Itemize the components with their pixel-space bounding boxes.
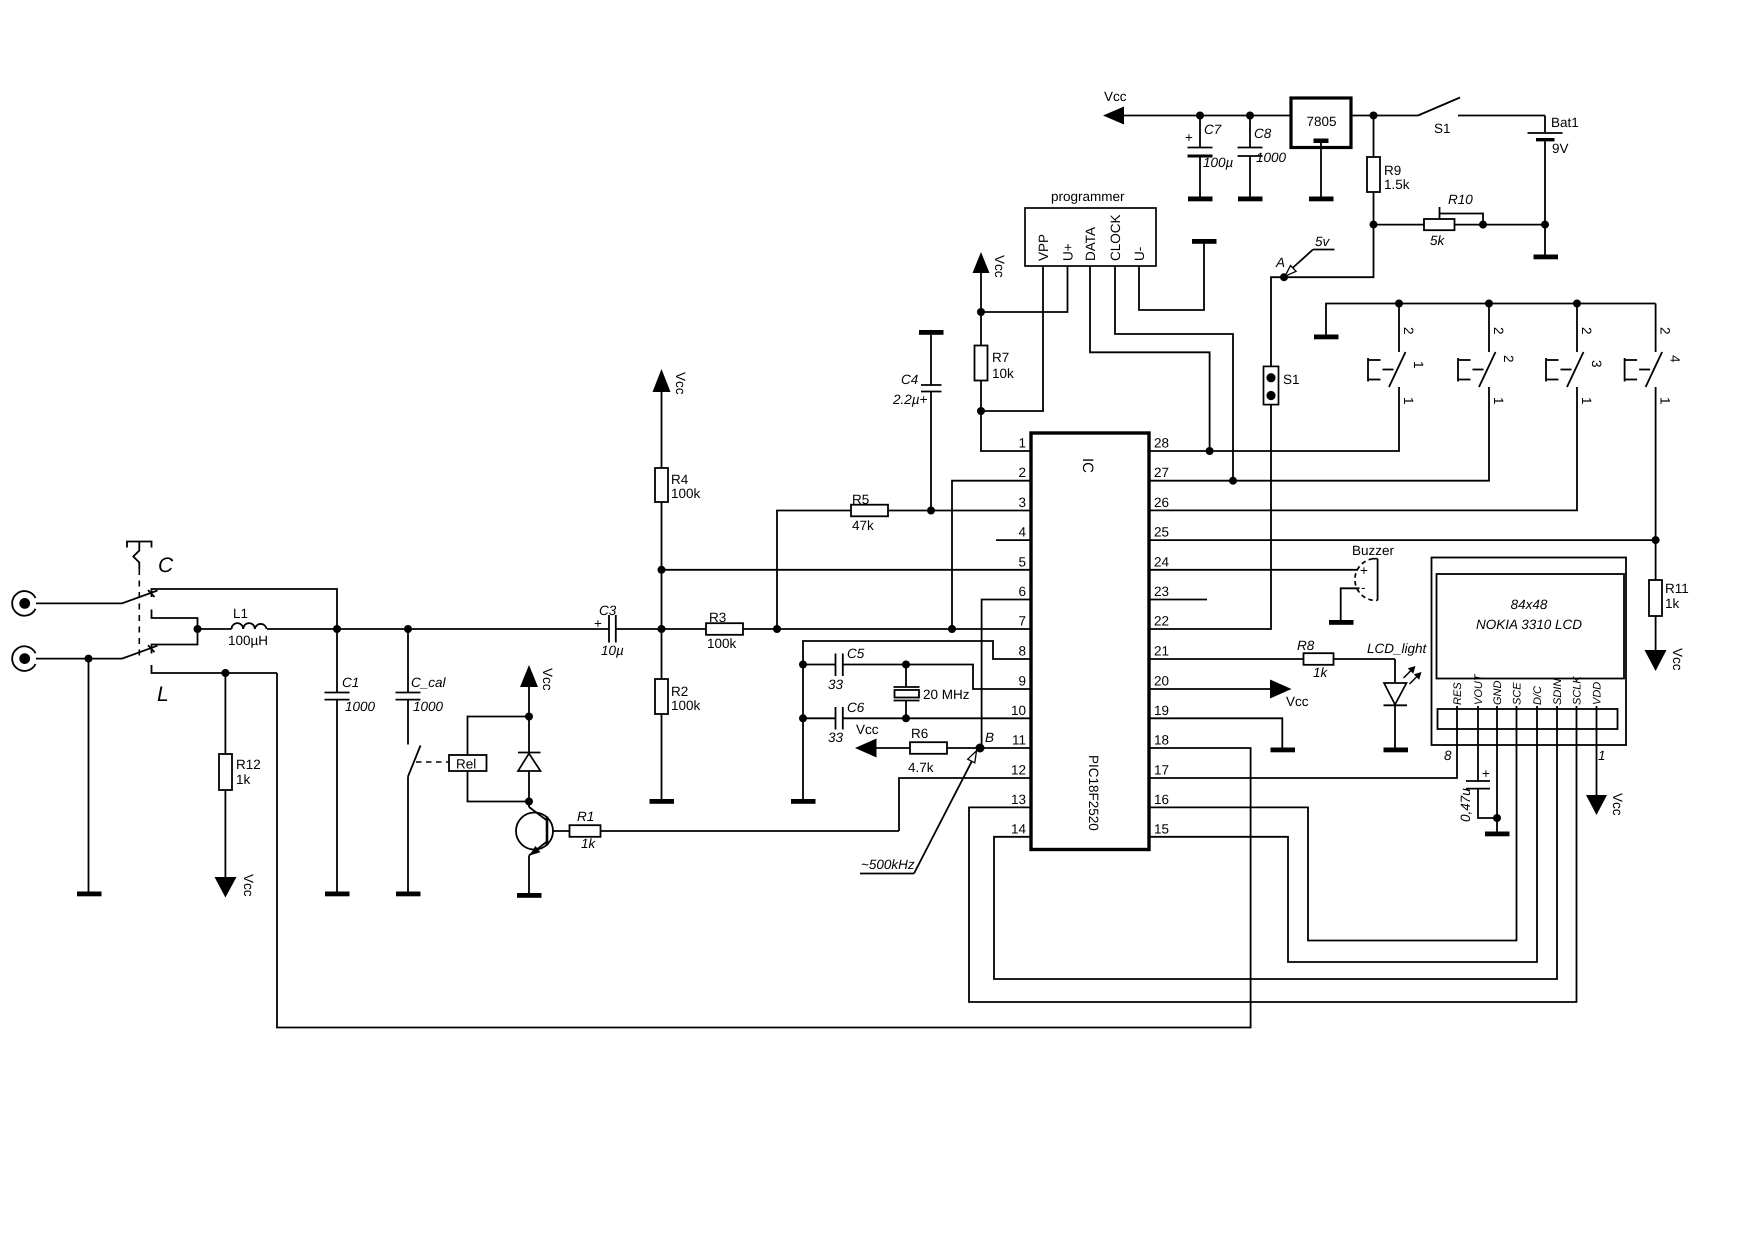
svg-text:10: 10 — [1011, 703, 1026, 718]
svg-text:VOUT: VOUT — [1473, 673, 1485, 705]
svg-text:L: L — [157, 683, 169, 706]
svg-text:13: 13 — [1011, 792, 1026, 807]
svg-text:2: 2 — [1501, 355, 1516, 363]
svg-text:1k: 1k — [236, 772, 251, 787]
svg-text:5: 5 — [1018, 554, 1026, 569]
svg-text:12: 12 — [1011, 763, 1026, 778]
pushbutton 1 — [1149, 304, 1426, 452]
node junction C_cal/main wire — [404, 625, 412, 633]
svg-text:5v: 5v — [1315, 234, 1331, 249]
svg-text:24: 24 — [1154, 554, 1170, 569]
svg-text:R6: R6 — [911, 726, 928, 741]
svg-text:33: 33 — [828, 730, 844, 745]
ground under battery — [1534, 225, 1559, 260]
svg-text:S1: S1 — [1434, 121, 1451, 136]
wire pin 21 to R8 — [1149, 658, 1304, 660]
svg-text:18: 18 — [1154, 733, 1169, 748]
ground under C_cal — [396, 892, 421, 897]
svg-text:11: 11 — [1012, 733, 1026, 748]
ground under LED — [1384, 748, 1409, 753]
svg-text:+: + — [1185, 130, 1193, 145]
svg-text:C1: C1 — [342, 675, 359, 690]
ground under LCD GND — [1485, 818, 1510, 836]
svg-text:5k: 5k — [1430, 233, 1446, 248]
node junction R10 wiper — [1479, 221, 1487, 229]
node junction C6 left — [799, 714, 807, 722]
wire pin 10 to crystal bottom — [906, 717, 1031, 719]
capacitor C7 100µ — [1185, 116, 1234, 197]
svg-text:Vcc: Vcc — [1610, 793, 1625, 816]
ground under R2 — [650, 799, 675, 804]
switch lever C_cal (relay contact) — [408, 746, 421, 777]
inductor L1 100µH — [198, 606, 269, 648]
svg-text:27: 27 — [1154, 465, 1169, 480]
svg-text:C6: C6 — [847, 700, 865, 715]
svg-text:1.5k: 1.5k — [1384, 177, 1410, 192]
connector programmer — [1025, 189, 1156, 266]
potentiometer R10 5k — [1374, 192, 1546, 248]
wire C terminal to C1 node — [152, 589, 338, 629]
svg-text:C4: C4 — [901, 372, 918, 387]
resistor R7 10k — [975, 312, 1015, 411]
resistor R4 100k — [655, 468, 701, 629]
capacitor 0,47u — [1458, 766, 1497, 822]
svg-text:Vcc: Vcc — [992, 255, 1007, 278]
svg-text:R5: R5 — [852, 492, 869, 507]
IC U1 PIC18F2520 body — [1031, 433, 1149, 850]
svg-text:RES: RES — [1452, 682, 1464, 705]
svg-text:C8: C8 — [1254, 126, 1272, 141]
resistor R2 100k — [655, 629, 701, 799]
node junction jack bottom/ground — [85, 655, 93, 663]
wire pin 12 to R1 — [899, 778, 1031, 831]
node A — [1275, 255, 1288, 281]
node junction CLOCK/pin27 — [1229, 477, 1237, 485]
wire buttons common rail — [1326, 304, 1656, 335]
svg-text:1000: 1000 — [413, 699, 444, 714]
wire pin 9 to crystal top — [906, 665, 1031, 690]
svg-text:A: A — [1275, 255, 1285, 270]
svg-text:9: 9 — [1018, 674, 1026, 689]
svg-text:2.2µ+: 2.2µ+ — [892, 392, 928, 407]
svg-text:C7: C7 — [1204, 122, 1222, 137]
capacitor C_cal 1000 — [396, 629, 447, 745]
wire U+ to R7 top node — [981, 266, 1068, 312]
transistor Q1 — [516, 802, 553, 894]
svg-text:B: B — [985, 730, 994, 745]
svg-text:Vcc: Vcc — [540, 668, 555, 691]
wire switch to battery — [1458, 115, 1545, 117]
svg-text:S1: S1 — [1283, 372, 1300, 387]
pin SCE — [1512, 682, 1524, 729]
capacitor C5 33 — [803, 646, 906, 692]
ground under C1 — [325, 892, 350, 897]
svg-text:U+: U+ — [1061, 243, 1076, 261]
svg-text:9V: 9V — [1552, 141, 1569, 156]
power symbol Vcc at pin 20 — [1270, 680, 1309, 710]
switch lever C — [122, 590, 158, 603]
LCD pin strip — [1438, 709, 1618, 729]
node B — [976, 730, 995, 753]
svg-text:LCD_light: LCD_light — [1367, 641, 1428, 656]
wire pin 6 down to node B — [982, 600, 1031, 749]
dashed mechanical link of input switch — [138, 569, 140, 656]
relay coil Rel — [449, 717, 529, 802]
svg-text:1: 1 — [1401, 397, 1416, 405]
svg-text:100k: 100k — [707, 636, 737, 651]
svg-text:20 MHz: 20 MHz — [923, 687, 970, 702]
connector jack icon (probe socket) — [127, 542, 152, 570]
svg-text:R3: R3 — [709, 610, 726, 625]
svg-text:1k: 1k — [581, 836, 597, 851]
node junction C5/crystal — [902, 661, 910, 669]
svg-text:100µH: 100µH — [228, 633, 268, 648]
wire C_cal switch to ground — [407, 777, 409, 892]
svg-text:+: + — [594, 616, 602, 631]
svg-text:47k: 47k — [852, 518, 874, 533]
LCD module NOKIA 3310 outer box — [1432, 558, 1627, 746]
svg-text:25: 25 — [1154, 525, 1169, 540]
pin SDIN — [1552, 679, 1564, 729]
wire R7 node to IC pin 1 — [981, 411, 1031, 451]
svg-text:+: + — [1482, 766, 1490, 781]
svg-text:IC: IC — [1079, 458, 1096, 473]
wire pin 2 to main node — [952, 481, 1031, 629]
ground at pin 19 — [1271, 748, 1296, 753]
svg-text:3: 3 — [1018, 495, 1026, 510]
node junction C1/main wire — [333, 625, 341, 633]
wire R5 node to IC pin 3 — [931, 510, 1031, 512]
power symbol Vcc at R6 (left arrow) — [855, 722, 910, 758]
diode D1 (flyback) — [518, 717, 541, 802]
wire Vcc rail to 7805 — [1123, 115, 1291, 117]
resistor R6 4.7k — [908, 726, 947, 775]
svg-text:PIC18F2520: PIC18F2520 — [1086, 755, 1101, 831]
svg-text:Vcc: Vcc — [856, 722, 879, 737]
wire pin 13 to LCD SCLK — [969, 729, 1577, 1002]
svg-text:19: 19 — [1154, 703, 1169, 718]
node junction C7/rail — [1196, 112, 1204, 120]
node junction battery/R10 — [1541, 221, 1549, 229]
svg-text:2: 2 — [1491, 327, 1506, 335]
svg-text:1k: 1k — [1313, 665, 1329, 680]
svg-text:R1: R1 — [577, 809, 594, 824]
wire pin 18 to L terminal (long bottom run) — [277, 673, 1251, 1028]
wire pin 20 to Vcc — [1149, 688, 1272, 690]
svg-text:Vcc: Vcc — [1286, 694, 1309, 709]
connector input jack bottom — [12, 646, 35, 671]
svg-text:Rel: Rel — [456, 757, 476, 772]
pin 23 stub — [1149, 599, 1207, 601]
resistor R1 1k — [553, 809, 899, 851]
power symbol Vcc above R4 — [653, 369, 689, 468]
svg-text:2: 2 — [1579, 327, 1594, 335]
node junction C8/rail — [1246, 112, 1254, 120]
pushbutton 2 — [1149, 304, 1516, 481]
pin D/C — [1532, 686, 1544, 729]
wire jack top to switch lever — [36, 602, 122, 604]
svg-text:7805: 7805 — [1307, 114, 1337, 129]
ground under transistor — [517, 893, 542, 898]
wire node A to jumper S1 — [1271, 277, 1284, 366]
svg-text:26: 26 — [1154, 495, 1169, 510]
node junction C5 left — [799, 661, 807, 669]
svg-text:100k: 100k — [671, 486, 701, 501]
voltage regulator 7805 — [1291, 98, 1351, 197]
wire buzzer to ground — [1341, 588, 1360, 620]
wire pin 16 to LCD SCE — [1149, 729, 1517, 941]
svg-text:84x48: 84x48 — [1511, 597, 1548, 612]
LCD display area — [1437, 574, 1625, 679]
svg-text:4: 4 — [1018, 525, 1026, 540]
wire pin 14 to LCD SDIN — [994, 729, 1557, 979]
wire pin 25 to R11 — [1149, 539, 1656, 541]
battery Bat1 9V — [1528, 115, 1579, 225]
node junction R7 top — [977, 308, 985, 316]
node junction rail/button1 — [1395, 300, 1403, 308]
capacitor C3 10µ — [267, 603, 706, 658]
svg-text:10µ: 10µ — [601, 643, 624, 658]
node junction diode/relay bottom — [525, 798, 533, 806]
svg-text:1: 1 — [1491, 397, 1506, 405]
svg-text:Buzzer: Buzzer — [1352, 543, 1395, 558]
svg-text:6: 6 — [1018, 584, 1026, 599]
jumper S1 — [1264, 366, 1300, 404]
svg-text:R8: R8 — [1297, 638, 1315, 653]
wire pin 11 to node B — [947, 747, 1031, 749]
svg-text:1: 1 — [1018, 436, 1026, 451]
svg-text:28: 28 — [1154, 436, 1169, 451]
wire pin 17 to LCD RES — [1149, 729, 1457, 778]
svg-text:+: + — [1360, 563, 1368, 578]
wire jack bottom to ground — [88, 659, 90, 892]
wire C5/C6 column to ground — [802, 665, 804, 800]
capacitor C1 1000 — [325, 629, 376, 892]
label 5v with leader arrow — [1285, 234, 1335, 276]
pushbutton 4 — [1625, 304, 1683, 541]
svg-text:1000: 1000 — [345, 699, 376, 714]
svg-text:1: 1 — [1411, 361, 1426, 369]
svg-text:CLOCK: CLOCK — [1108, 214, 1123, 261]
svg-text:100k: 100k — [671, 698, 701, 713]
power symbol Vcc under R12 (down arrow) — [215, 874, 257, 898]
pin VDD — [1592, 682, 1604, 795]
node junction R4/main wire — [658, 625, 666, 633]
svg-text:1000: 1000 — [1256, 150, 1287, 165]
svg-text:R10: R10 — [1448, 192, 1473, 207]
svg-text:1: 1 — [1658, 397, 1673, 405]
svg-text:C_cal: C_cal — [411, 675, 447, 690]
ground under buzzer — [1329, 620, 1354, 625]
dashed link relay to C_cal switch — [416, 761, 449, 763]
svg-text:2: 2 — [1018, 465, 1026, 480]
svg-text:VDD: VDD — [1592, 682, 1604, 705]
svg-text:2: 2 — [1401, 327, 1416, 335]
node junction pin5 wire — [658, 566, 666, 574]
svg-text:17: 17 — [1154, 763, 1169, 778]
svg-text:0,47u: 0,47u — [1458, 788, 1473, 822]
svg-text:100µ: 100µ — [1203, 155, 1234, 170]
switch S1 (battery switch) — [1418, 98, 1460, 137]
power symbol Vcc under R11 (down arrow) — [1645, 648, 1686, 671]
ground above U- — [1192, 239, 1217, 244]
svg-text:33: 33 — [828, 677, 844, 692]
resistor R12 1k — [219, 673, 261, 877]
resistor R3 100k — [706, 610, 1031, 651]
resistor R8 1k — [1297, 638, 1395, 680]
svg-text:16: 16 — [1154, 792, 1169, 807]
C measuring bracket contact — [152, 610, 198, 654]
pin VOUT — [1473, 673, 1485, 781]
power symbol Vcc above relay driver — [520, 665, 555, 717]
resistor R11 1k — [1649, 540, 1689, 650]
node junction pin2/main wire — [948, 625, 956, 633]
svg-text:NOKIA 3310 LCD: NOKIA 3310 LCD — [1476, 617, 1582, 632]
node junction R9/R10 — [1370, 221, 1378, 229]
ground under C5/C6 — [791, 799, 816, 804]
wire pin 19 to ground — [1149, 718, 1282, 747]
svg-text:GND: GND — [1492, 681, 1504, 706]
wire CLOCK to IC pin 27 — [1115, 266, 1233, 481]
svg-text:15: 15 — [1154, 821, 1169, 836]
capacitor C6 33 — [803, 700, 906, 745]
node junction L1 input — [194, 625, 202, 633]
svg-text:8: 8 — [1018, 644, 1026, 659]
power symbol Vcc under VDD (down arrow) — [1586, 793, 1625, 816]
svg-text:SCE: SCE — [1512, 682, 1524, 705]
switch lever L — [122, 645, 158, 658]
svg-text:2: 2 — [1658, 327, 1673, 335]
pin 4 stub — [996, 539, 1031, 541]
node junction R12/L wire — [221, 669, 229, 677]
resistor R5 47k — [777, 492, 931, 629]
wire pin 8 to C5 column — [803, 641, 1031, 665]
svg-text:8: 8 — [1444, 748, 1452, 763]
crystal 20 MHz — [894, 665, 970, 719]
svg-text:Bat1: Bat1 — [1551, 115, 1579, 130]
pin SCLK — [1572, 676, 1584, 729]
svg-text:C5: C5 — [847, 646, 865, 661]
wire jumper S1 to IC pin 22 — [1149, 405, 1271, 629]
svg-text:C3: C3 — [599, 603, 617, 618]
svg-text:programmer: programmer — [1051, 189, 1125, 204]
wire jack bottom to switch lever — [36, 658, 122, 660]
svg-text:C: C — [158, 554, 174, 577]
svg-text:L1: L1 — [233, 606, 248, 621]
wire U- to ground — [1139, 244, 1204, 310]
buzzer — [1352, 543, 1395, 600]
wire VPP to R7 bottom node — [981, 266, 1043, 411]
pin GND — [1492, 681, 1504, 819]
svg-text:Vcc: Vcc — [1670, 648, 1685, 671]
node junction crystal/C6 — [902, 714, 910, 722]
svg-text:~500kHz: ~500kHz — [861, 857, 915, 872]
svg-text:U-: U- — [1132, 247, 1147, 261]
node junction button4/R11 — [1652, 536, 1660, 544]
wire pin 5 to R4/R2 node — [662, 569, 1032, 571]
ground under 7805 — [1309, 197, 1334, 202]
wire R9 junction down to node A — [1284, 225, 1374, 278]
svg-text:7: 7 — [1018, 614, 1026, 629]
ground at buttons rail — [1314, 335, 1339, 340]
ground under C7 — [1188, 197, 1213, 202]
svg-text:R4: R4 — [671, 472, 689, 487]
ground under C8 — [1238, 197, 1263, 202]
svg-text:R9: R9 — [1384, 163, 1401, 178]
node junction R7 bottom — [977, 407, 985, 415]
node junction 0.47u/GND — [1493, 814, 1501, 822]
svg-text:1: 1 — [1598, 748, 1606, 763]
svg-text:4: 4 — [1668, 355, 1683, 363]
power symbol Vcc (top-left arrow) — [1103, 89, 1127, 125]
svg-text:SDIN: SDIN — [1552, 679, 1564, 705]
svg-text:3: 3 — [1589, 360, 1604, 368]
pin RES — [1452, 682, 1464, 729]
node junction rail/button2 — [1485, 300, 1493, 308]
resistor R9 1.5k — [1367, 116, 1410, 225]
wire pin 15 to LCD D/C — [1149, 729, 1537, 962]
svg-text:23: 23 — [1154, 584, 1169, 599]
node junction C4/R5/pin3 — [927, 507, 935, 515]
node junction rail/button3 — [1573, 300, 1581, 308]
svg-text:VPP: VPP — [1036, 234, 1051, 261]
capacitor C4 2.2µ — [892, 335, 942, 511]
wire pin 24 to buzzer — [1149, 569, 1358, 571]
svg-text:R2: R2 — [671, 684, 688, 699]
svg-text:Vcc: Vcc — [673, 372, 688, 395]
svg-text:DATA: DATA — [1083, 227, 1098, 261]
connector input jack top — [12, 591, 35, 616]
capacitor C8 1000 — [1238, 116, 1287, 197]
wire 7805 to switch S1 — [1351, 115, 1418, 117]
L terminal bracket — [152, 665, 278, 673]
node junction R9 top — [1370, 112, 1378, 120]
node junction Vcc/diode/relay top — [525, 713, 533, 721]
label ~500kHz with leader arrow — [860, 751, 977, 874]
svg-text:R12: R12 — [236, 757, 261, 772]
svg-text:1: 1 — [1579, 397, 1594, 405]
pushbutton 3 — [1149, 304, 1604, 511]
node junction R5/main wire — [773, 625, 781, 633]
svg-text:22: 22 — [1154, 614, 1169, 629]
svg-text:1k: 1k — [1665, 596, 1680, 611]
svg-text:R11: R11 — [1665, 581, 1689, 596]
svg-text:SCLK: SCLK — [1572, 676, 1584, 705]
svg-text:Vcc: Vcc — [241, 874, 256, 897]
node junction DATA/pin28 — [1206, 447, 1214, 455]
svg-text:10k: 10k — [992, 366, 1014, 381]
svg-text:14: 14 — [1011, 821, 1027, 836]
ground under input jack — [77, 892, 102, 897]
svg-text:4.7k: 4.7k — [908, 760, 934, 775]
svg-text:20: 20 — [1154, 674, 1169, 689]
power symbol Vcc above R7 — [973, 252, 1008, 312]
svg-text:-: - — [1361, 580, 1366, 595]
svg-text:R7: R7 — [992, 350, 1009, 365]
svg-text:D/C: D/C — [1532, 686, 1544, 705]
wire DATA to IC pin 28 — [1090, 266, 1210, 451]
ground above C4 — [919, 330, 944, 335]
svg-text:21: 21 — [1154, 644, 1169, 659]
LED LCD backlight — [1384, 659, 1422, 748]
svg-text:Vcc: Vcc — [1104, 89, 1127, 104]
